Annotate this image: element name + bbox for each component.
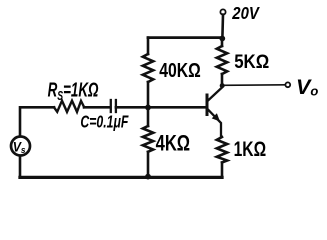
wire 40K branch top	[147, 38, 150, 54]
svg-text:4KΩ: 4KΩ	[156, 131, 191, 156]
source Vs	[11, 137, 30, 156]
label RS value	[48, 79, 99, 104]
wire Vo output	[222, 84, 285, 87]
wire top rail	[148, 36, 222, 39]
resistor R3 5K zigzag	[221, 38, 224, 46]
transistor Q1 emitter arrow	[212, 113, 220, 121]
wire bottom rail	[20, 176, 222, 179]
label Vs	[13, 139, 26, 155]
svg-text:5KΩ: 5KΩ	[234, 51, 269, 73]
wire RS to C	[84, 106, 110, 109]
capacitor C1 plates	[110, 100, 112, 112]
resistor RS zigzag	[54, 101, 84, 112]
svg-text:Vs: Vs	[13, 139, 26, 155]
svg-text:40KΩ: 40KΩ	[159, 60, 201, 82]
svg-text:20V: 20V	[231, 3, 259, 23]
terminal Vo	[285, 82, 290, 87]
svg-text:Vo: Vo	[296, 75, 318, 99]
node top rail junction	[219, 36, 225, 42]
svg-text:1KΩ: 1KΩ	[234, 138, 267, 161]
svg-text:C=0.1μF: C=0.1μF	[80, 112, 129, 132]
transistor Q1 collector lead	[208, 86, 223, 101]
wire C to base	[116, 106, 206, 109]
node collector	[220, 83, 225, 88]
terminal 20V	[220, 9, 225, 14]
transistor Q1 emitter lead	[208, 109, 222, 137]
resistor R1 40K zigzag	[143, 54, 153, 82]
resistor R2 4K zigzag	[143, 126, 153, 152]
resistor R4 1K zigzag	[217, 137, 227, 163]
svg-text:RS=1KΩ: RS=1KΩ	[48, 79, 99, 104]
node base-bias junction	[145, 105, 151, 111]
label Vo	[296, 75, 318, 99]
wire left vertical top	[20, 107, 54, 136]
wire 4K bottom	[147, 152, 150, 178]
wire 40K to 4K	[147, 82, 150, 126]
wire left vertical bottom	[19, 157, 22, 178]
node bottom rail junction	[145, 174, 151, 180]
transistor Q1 base bar	[206, 95, 209, 115]
